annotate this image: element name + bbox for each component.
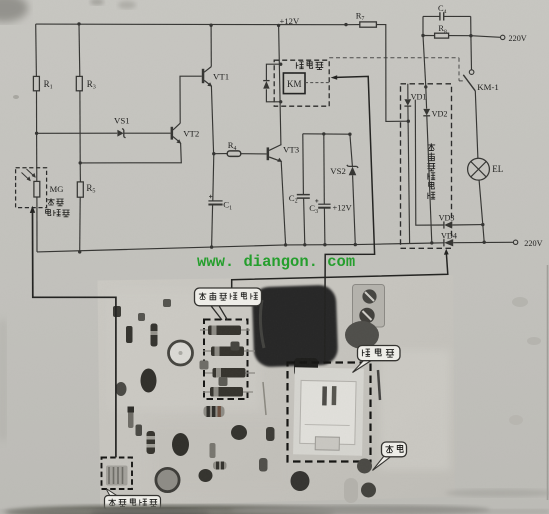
node: EL / VD3 junction [481,223,484,226]
photo: small resistor d [128,407,135,429]
transistor VT1 [202,67,212,87]
wire: +12V top rail [36,23,346,26]
photo: mounting hole m [357,459,372,474]
photo: component t3 [219,377,228,386]
label 继电器 (relay) [296,61,323,70]
node: R3/R5/VT2-emitter junction [79,161,82,164]
wire: to 220V top terminal [471,36,501,38]
wire: KM-1 upper lead [470,36,473,70]
node: C4/R8 left junction [421,34,424,37]
photoresistor MG body [22,169,40,197]
node: R1/VS1/MG junction [35,132,38,135]
diode VD3 [444,221,452,228]
pointer: bridge rectifier callout line [232,249,449,288]
photo: transistor c [141,369,157,393]
photo label: 继电器 tag [353,346,401,373]
photo: component t8 [138,313,145,321]
capacitor C2 [297,195,310,199]
wire: freewheel diode loop [266,64,280,102]
photo label: 桥式整流电路 tag [195,288,262,320]
wire: R8 leads [423,35,471,37]
wire: C1 upper lead [213,154,214,201]
wire: C3 upper lead [323,134,326,204]
switch KM-1 (relay contact) [463,70,475,91]
transistor VT2 [171,123,182,143]
wire: VD3 branch column [415,100,443,226]
node: bottom rail junction VS2 [354,243,357,246]
wire: VT2 collector up to VT1 base [180,76,202,123]
wire: R1 branch upper [35,24,38,76]
resistor R8 [435,33,449,38]
node: VD2 column top junction [424,85,427,88]
wire: MG upper lead [36,133,38,181]
label 光敏 (photosensitive) [47,198,63,206]
node: +12V rail junction VS2 [348,133,351,136]
node: +12V rail junction C3 [322,132,325,135]
photo: rectifier diode 4 [203,387,253,397]
wire: VD1 column lower [408,106,410,243]
photo: mounting hole n [361,483,376,498]
wire: R4 right lead to VT3 base [241,153,267,155]
diode VD1 [404,99,411,106]
photo: component t7 [116,382,127,396]
terminal: 220V line input (bottom) [513,240,517,244]
wire: R4 left lead [214,153,227,155]
wire: VT2 emitter down and left to R5 node [80,143,181,163]
node: bottom rail junction C2 [303,243,306,246]
node: bottom rail junction VT3 emitter [284,243,287,246]
transistor VT3 [267,145,283,162]
photo: photoresistor dashed box [102,458,133,490]
node: VT1 emitter / R4 / C1 junction [212,152,215,155]
diode VD2 [423,109,430,116]
photo: wire jumper s [263,382,266,415]
photo: dark capacitor top view [156,468,179,491]
wire: R5 to bottom rail [79,197,82,252]
diode VS2 (zener) [347,165,358,175]
wire: VD2 column lower [427,116,432,243]
photo: component t2 [200,361,209,370]
wire: C2 lower lead [304,198,305,245]
wire: mechanical linkage (dashed) relay to KM-1 [305,82,329,84]
photo: capsule component o [344,478,358,503]
photo: component t1 [136,425,143,437]
node: bottom rail junction C3 [323,243,326,246]
photo: photoresistor component [106,466,128,486]
photo: component t5 [266,427,275,441]
wire: R1 to VS1 node [36,91,38,134]
wire: R3 branch upper [78,24,81,77]
capacitor C1 (electrolytic) [208,195,222,205]
terminal: 220V line input (top) [501,35,505,39]
node: EL / bottom rail junction [483,241,486,244]
wire: dropper to VD2 column [423,36,426,87]
node: VD2 / bottom rail junction [430,241,433,244]
photo: component l [291,471,310,491]
photo: relay dashed box [288,363,371,462]
label 桥式整流电路 (bridge rectifier, vertical) [427,143,435,199]
pointer: relay callout line to KM box [325,75,375,362]
node: freewheel diode bottom junction [279,100,282,103]
wire: R7 right lead down to bridge input [376,25,408,122]
photo: rectifier diode 3 [205,368,255,378]
photo: terminal block [353,285,385,328]
wire: VD1 column upper [407,84,409,99]
wire: R3 to emitter node [79,91,81,163]
wire: R7 left lead [346,24,360,26]
resistor R4 [227,151,241,157]
wire: VS2 lower lead [353,175,356,244]
wire: C3 lower lead [323,208,326,245]
resistor R5 [77,182,83,197]
photo: component t4 [231,342,240,351]
capacitor C4 [423,12,471,20]
wire: C2 upper lead [302,134,305,195]
wire: VD2 column upper [425,87,428,109]
photo: dark blob below terminal block [345,321,379,349]
photo: component k [199,469,213,482]
relay coil KM [283,73,305,94]
photo: transistor f [172,433,189,456]
diode VD4 (in series with bottom rail) [444,239,453,246]
diode VS1 (zener) [117,129,125,138]
wire: bottom rail (left part) [37,243,444,252]
wire: C4 side legs [423,16,471,35]
node: bottom rail junction R5 [78,250,81,253]
photo: component h [231,425,247,440]
wire: bottom rail right section to 220V terminal [453,241,513,243]
photo: wire jumper r [378,370,380,400]
wire: KM-1 to lamp EL [475,91,478,158]
wire: relay coil branch (top rail through relay to VT3 collector) [279,25,282,144]
diode freewheel (across relay coil) [263,81,269,89]
photo: component i [210,443,216,458]
bridge rectifier dashed enclosure [401,84,452,249]
wire: VD3 to EL junction [452,224,483,226]
pointer: photoresistor callout line to MG [30,206,116,458]
photo: bridge diodes dashed box [204,320,248,400]
photo: small resistor b [151,324,158,347]
wire: VT1 collector to top rail [210,25,212,66]
wire: MG lower lead to bottom rail [36,197,38,252]
photo: white capacitor top view [169,341,193,365]
photo label: 接灯 tag [373,442,407,471]
label 电阻器 (resistor) [46,209,70,217]
node: freewheel diode top junction [279,62,282,65]
photo: striped resistor e [147,431,156,454]
capacitor C3 (electrolytic) [315,199,330,207]
photo: small resistor a [126,326,133,343]
photo: component q [163,299,171,307]
node: bottom rail junction C1 [210,245,213,248]
wire: VS1 cathode to VT2 base [124,132,171,134]
wire: VS2 upper lead [350,134,353,166]
node: top rail junction relay branch [277,24,280,27]
wire: C1 lower lead to bottom rail [212,205,213,248]
photo: component p [113,306,121,317]
photoresistor MG dashed enclosure [16,168,47,208]
wire: VS1 anode lead [37,132,118,134]
photo: transformer (black component) [252,285,339,376]
wire: to bottom rail [483,225,484,243]
node: top rail junction R3 [77,22,80,25]
photo: circuit board photograph [98,275,455,506]
node: VD1 / AC feed junction [407,120,410,123]
resistor R7 [360,22,377,27]
wire: R5 branch [79,163,81,182]
node: C4/R8 right junction [469,34,472,37]
node: top rail junction R7 [344,23,347,26]
photo: component t6 [259,458,268,472]
photo label: 光敏电阻器 tag [105,489,161,511]
wire: VT3 emitter to bottom rail [281,161,285,245]
photo: striped resistor g [204,406,225,417]
node: top rail junction VT1 collector [209,24,212,27]
photo: striped resistor j [213,462,227,470]
photo: rectifier diode 1 [200,326,250,336]
photo: relay body [293,367,364,455]
resistor R3 [76,76,82,90]
wire: +12V filtered rail [303,133,350,135]
photo: rectifier diode 2 [203,347,255,357]
relay KM dashed enclosure [274,60,329,106]
wire: EL to VD3 node [479,180,483,225]
resistor R1 [33,76,39,90]
wire: VT1 emitter down to R4/C1 node [211,86,213,154]
lamp EL [468,158,490,180]
